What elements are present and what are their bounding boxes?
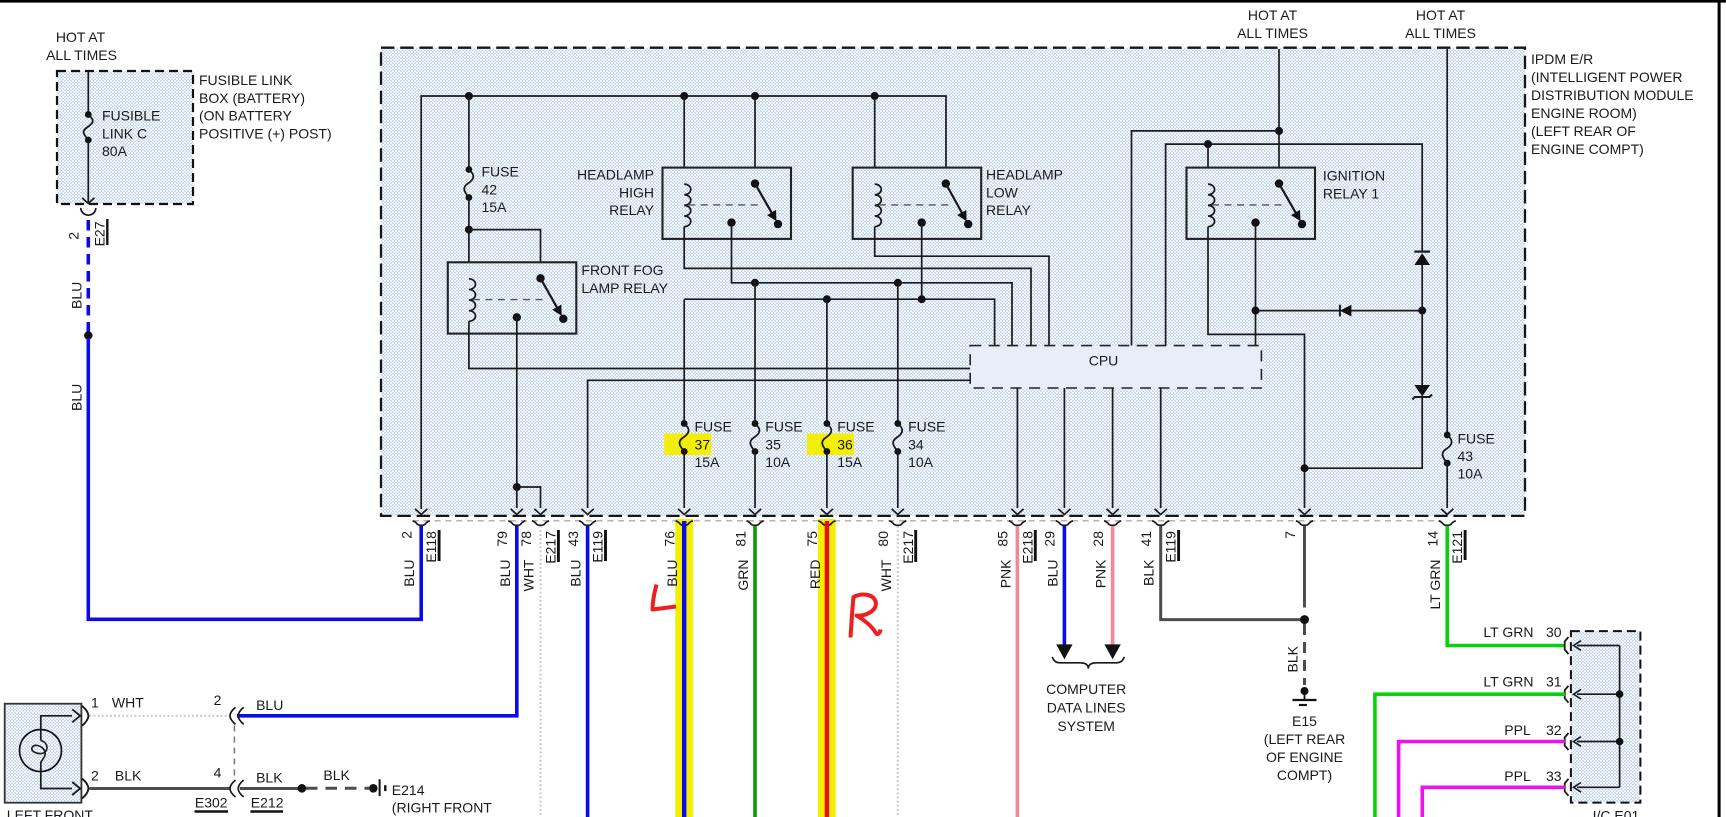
svg-text:75: 75 <box>804 531 820 547</box>
wire feed to fuse 35 <box>754 283 756 424</box>
ground E15 <box>1301 687 1309 695</box>
wire BLU from junction down and right to IPDM pin 2 E118 <box>88 338 421 619</box>
wire GRN pin 81 down <box>753 526 757 817</box>
wire CPU to pin 41 <box>1160 388 1162 508</box>
node diode line right junction <box>1418 307 1426 315</box>
svg-text:41: 41 <box>1138 531 1154 547</box>
annotation L (left headlamp wire) <box>653 585 677 610</box>
wire PPL pin 33 down <box>1422 787 1565 817</box>
svg-text:E217: E217 <box>543 531 559 564</box>
svg-text:FUSE: FUSE <box>1458 431 1495 447</box>
node rail pin 31 <box>1616 690 1624 698</box>
wire WHT pin 80 down <box>897 526 899 817</box>
wire BLU pin 76 down (left headlamp) <box>682 521 686 817</box>
connector IPDM pin 78 E217 <box>534 509 546 515</box>
fusible link box (battery) <box>57 71 193 204</box>
svg-text:FUSE: FUSE <box>765 419 802 435</box>
connector strip dashed line below IPDM <box>413 520 1441 522</box>
connector I/C E01 pin 30 <box>1577 645 1620 647</box>
fuse 43 10A <box>1444 432 1451 439</box>
wire pin 43 line to CPU <box>588 380 971 508</box>
svg-text:HOT AT: HOT AT <box>56 29 106 45</box>
wire connector link dashed <box>233 726 235 781</box>
svg-text:ALL TIMES: ALL TIMES <box>46 47 117 63</box>
svg-text:E121: E121 <box>1449 531 1465 564</box>
wire junction to pin 78 <box>517 487 541 508</box>
svg-text:(ON BATTERY: (ON BATTERY <box>199 108 292 124</box>
svg-text:RELAY 1: RELAY 1 <box>1323 186 1380 202</box>
wire feed to fuse 36 <box>826 299 828 423</box>
node coil tap <box>1204 140 1212 148</box>
wire high relay common feed to fuses 35 34 and CPU <box>732 223 1013 346</box>
svg-text:BLU: BLU <box>256 697 283 713</box>
node fuse 42 output junction <box>465 226 473 234</box>
wire fuse 42 to junction <box>468 198 470 230</box>
wire PPL pin 32 down <box>1399 742 1565 817</box>
svg-text:BLU: BLU <box>68 282 84 309</box>
svg-text:E119: E119 <box>1163 531 1179 563</box>
connector E214 symbol <box>379 779 381 796</box>
svg-text:78: 78 <box>518 531 534 547</box>
svg-text:LT GRN: LT GRN <box>1427 560 1443 610</box>
connector IPDM pin 2 E118 <box>415 509 427 515</box>
diode D2 (pointing left) <box>1340 305 1352 317</box>
svg-text:ENGINE COMPT): ENGINE COMPT) <box>1531 141 1644 157</box>
svg-text:HOT AT: HOT AT <box>1248 7 1298 23</box>
wire highlight yellow pin 75 <box>818 519 836 817</box>
connector E302 E212 pin 2 <box>230 707 236 724</box>
svg-text:10A: 10A <box>765 454 791 470</box>
page right border <box>1718 0 1721 817</box>
node ground junction <box>1300 615 1309 624</box>
svg-text:HIGH: HIGH <box>619 185 654 201</box>
wire fusible link to connector E27 <box>87 140 89 202</box>
svg-text:2: 2 <box>65 232 81 240</box>
svg-text:ALL TIMES: ALL TIMES <box>1237 25 1308 41</box>
connector I/C E01 pin 32 <box>1577 741 1620 743</box>
fuse 37 15A <box>681 420 688 427</box>
fusible link C 80A <box>85 111 92 118</box>
svg-text:POSITIVE (+) POST): POSITIVE (+) POST) <box>199 126 332 142</box>
wire tap to ignition relay coil <box>1207 144 1209 184</box>
svg-text:COMPT): COMPT) <box>1277 767 1332 783</box>
wire fog relay common down to junction <box>516 317 518 487</box>
connector IPDM pin 29 <box>1058 509 1070 515</box>
svg-text:BLU: BLU <box>497 560 513 587</box>
svg-text:DISTRIBUTION MODULE: DISTRIBUTION MODULE <box>1531 87 1694 103</box>
wire fuse 37 to pin <box>683 452 685 509</box>
wire bus to high relay coil <box>683 96 685 184</box>
svg-text:(LEFT REAR OF: (LEFT REAR OF <box>1531 123 1636 139</box>
left front fog lamp box <box>5 704 82 803</box>
wire zener to pin 7 ground line <box>1305 397 1423 468</box>
svg-text:2: 2 <box>91 768 99 784</box>
svg-text:28: 28 <box>1090 531 1106 547</box>
wire main bus from pin 2 feed across relays <box>421 96 946 509</box>
wire LT GRN pin 14 to connector I/C E01 pin 30 <box>1447 526 1565 646</box>
svg-text:FUSE: FUSE <box>837 419 874 435</box>
svg-text:80A: 80A <box>102 143 128 159</box>
highlight fuse 36 <box>807 434 854 456</box>
wire diode D1 to junction <box>1421 265 1423 311</box>
svg-text:LEFT FRONT: LEFT FRONT <box>7 807 94 817</box>
svg-text:RELAY: RELAY <box>986 202 1032 218</box>
svg-text:29: 29 <box>1042 531 1058 547</box>
svg-text:1: 1 <box>91 695 99 711</box>
wire highlight yellow pin 76 <box>675 519 693 817</box>
wire LT GRN pin 31 down <box>1375 694 1565 817</box>
svg-text:FUSE: FUSE <box>695 419 732 435</box>
svg-text:SYSTEM: SYSTEM <box>1057 718 1115 734</box>
wire low relay coil to CPU <box>875 227 1049 346</box>
relay headlamp low relay <box>853 168 982 239</box>
svg-text:E214: E214 <box>392 782 425 798</box>
connector IPDM pin 79 <box>511 509 523 515</box>
wire BLK dashed to E214 <box>306 787 369 790</box>
svg-text:OF ENGINE: OF ENGINE <box>1266 749 1343 765</box>
connector IPDM pin 43 E119 <box>582 509 594 515</box>
svg-text:HOT AT: HOT AT <box>1416 7 1466 23</box>
svg-text:2: 2 <box>399 531 415 539</box>
svg-text:WHT: WHT <box>112 695 144 711</box>
wire junction to pin 79 <box>516 487 518 508</box>
wire ignition feed branch to CPU <box>1132 131 1280 346</box>
svg-text:32: 32 <box>1546 722 1562 738</box>
svg-text:BOX (BATTERY): BOX (BATTERY) <box>199 90 305 106</box>
svg-text:E217: E217 <box>900 531 916 564</box>
wire PNK pin 85 down <box>1016 526 1020 817</box>
svg-text:HEADLAMP: HEADLAMP <box>986 167 1063 183</box>
svg-text:(LEFT REAR: (LEFT REAR <box>1264 731 1345 747</box>
svg-text:PPL: PPL <box>1504 768 1531 784</box>
svg-text:79: 79 <box>494 531 510 547</box>
node high common to fuse 34 <box>894 279 902 287</box>
connector I/C E01 pin 33 <box>1577 786 1620 788</box>
brace computer data lines <box>1052 657 1124 669</box>
svg-text:LOW: LOW <box>986 185 1019 201</box>
relay headlamp high relay <box>663 168 792 239</box>
svg-text:14: 14 <box>1425 531 1441 547</box>
wire BLK dashed to ground E15 <box>1303 624 1306 685</box>
fuse 42 15A <box>466 166 473 173</box>
svg-text:FUSIBLE: FUSIBLE <box>102 108 160 124</box>
wire fuse 36 to pin <box>826 452 828 509</box>
svg-text:15A: 15A <box>695 454 721 470</box>
wire WHT lamp to connector E302 <box>90 715 230 717</box>
svg-text:E302: E302 <box>195 795 228 811</box>
wire ignition relay common to CPU <box>1255 223 1257 346</box>
connector IPDM pin 14 E121 <box>1441 509 1453 515</box>
svg-text:10A: 10A <box>1458 466 1484 482</box>
svg-text:BLU: BLU <box>68 384 84 411</box>
svg-text:BLU: BLU <box>568 560 584 587</box>
svg-text:BLU: BLU <box>664 560 680 587</box>
svg-text:81: 81 <box>732 531 748 547</box>
wire fuse 34 to pin <box>897 452 899 509</box>
wire HOT AT ALL TIMES feed to ignition relay switch <box>1278 49 1280 184</box>
svg-text:IPDM E/R: IPDM E/R <box>1531 51 1593 67</box>
wire bus to fuse 42 <box>468 96 470 170</box>
svg-text:WHT: WHT <box>521 559 537 591</box>
svg-text:BLK: BLK <box>256 770 283 786</box>
I/C E01 connector box <box>1571 631 1641 803</box>
svg-text:BLK: BLK <box>115 768 142 784</box>
fuse 36 15A <box>824 420 831 427</box>
svg-text:FUSE: FUSE <box>908 419 945 435</box>
svg-text:DATA LINES: DATA LINES <box>1047 700 1126 716</box>
wire RED pin 75 down (right headlamp) <box>825 521 829 817</box>
svg-text:10A: 10A <box>908 454 934 470</box>
wire BLU pin 43 down <box>586 526 590 817</box>
connector lamp pin 2 <box>82 779 89 799</box>
svg-text:E218: E218 <box>1019 531 1035 564</box>
wire lamp internal pin 1 <box>41 716 72 741</box>
connector IPDM pin 81 <box>749 509 761 515</box>
node rail pin 32 <box>1616 738 1624 746</box>
svg-text:RELAY: RELAY <box>609 202 655 218</box>
svg-text:HEADLAMP: HEADLAMP <box>577 167 654 183</box>
svg-text:43: 43 <box>565 531 581 547</box>
svg-text:BLU: BLU <box>401 560 417 587</box>
svg-text:LT GRN: LT GRN <box>1483 624 1533 640</box>
svg-text:37: 37 <box>695 437 711 453</box>
svg-text:COMPUTER: COMPUTER <box>1046 681 1126 697</box>
wire BLK from E212 to junction <box>240 787 298 790</box>
svg-text:31: 31 <box>1546 674 1562 690</box>
node BLK at E214 <box>369 784 378 793</box>
svg-text:33: 33 <box>1546 768 1562 784</box>
connector I/C E01 pin 31 <box>1577 693 1620 695</box>
svg-text:34: 34 <box>908 437 924 453</box>
node feed to fuse 36 <box>823 295 831 303</box>
svg-text:2: 2 <box>214 692 222 708</box>
connector IPDM pin 7 <box>1298 509 1310 515</box>
wire fuse 43 to pin 14 <box>1446 463 1448 508</box>
node bus to headlamp high relay coil <box>680 92 688 100</box>
relay front fog lamp relay <box>448 262 577 333</box>
connector IPDM pin 75 <box>821 509 833 515</box>
wire BLU dashed from E27 <box>87 220 91 332</box>
svg-text:LINK C: LINK C <box>102 126 147 142</box>
svg-text:LT GRN: LT GRN <box>1483 674 1533 690</box>
svg-text:15A: 15A <box>837 454 863 470</box>
wire high relay coil to CPU <box>684 227 1031 346</box>
node low common junction <box>918 295 926 303</box>
annotation R (right headlamp wire) <box>851 595 881 638</box>
wire junction to front fog relay switch <box>469 230 541 279</box>
wire lamp internal pin 2 <box>41 762 72 789</box>
relay ignition relay 1 <box>1187 168 1316 239</box>
svg-text:PNK: PNK <box>1093 559 1109 588</box>
svg-text:E15: E15 <box>1292 713 1317 729</box>
svg-text:RED: RED <box>807 560 823 590</box>
svg-text:FUSIBLE LINK: FUSIBLE LINK <box>199 72 293 88</box>
node bus to fuse 42 <box>465 92 473 100</box>
svg-text:43: 43 <box>1458 448 1474 464</box>
connector IPDM pin 80 E217 <box>892 509 904 515</box>
zener diode D3 (pointing down) <box>1421 311 1423 385</box>
arrow into connector E27 <box>82 198 94 204</box>
svg-text:GRN: GRN <box>735 560 751 591</box>
wire diode horizontal line <box>1256 310 1423 312</box>
lamp bulb <box>20 730 62 772</box>
wire bus to high relay switch <box>754 96 756 184</box>
svg-text:BLK: BLK <box>1141 559 1157 586</box>
svg-text:85: 85 <box>995 531 1011 547</box>
connector IPDM pin 41 E119 <box>1155 509 1167 515</box>
wire ignition relay coil to pin 7 ground line <box>1208 227 1305 508</box>
svg-text:PNK: PNK <box>997 559 1013 588</box>
connector IPDM pin 85 E218 <box>1011 509 1023 515</box>
svg-text:ENGINE ROOM): ENGINE ROOM) <box>1531 105 1637 121</box>
node junction on BLU wire <box>84 331 92 339</box>
wire PNK pin 28 to computer data lines <box>1111 526 1115 645</box>
svg-text:76: 76 <box>662 531 678 547</box>
wire fuse 35 to pin <box>754 452 756 509</box>
connector E27 pin 2 <box>81 208 96 215</box>
svg-text:E27: E27 <box>91 221 107 246</box>
wire BLU pin 29 to computer data lines <box>1063 526 1067 645</box>
node fog relay output junction <box>513 483 521 491</box>
svg-text:FUSE: FUSE <box>482 164 519 180</box>
wire BLK pin 7 to ground junction <box>1303 526 1306 608</box>
wire HOT AT ALL TIMES feed to fuse 43 <box>1446 49 1448 435</box>
diode D1 (pointing up) <box>1414 253 1430 265</box>
svg-text:I/C E01: I/C E01 <box>1593 808 1640 817</box>
page top border <box>0 0 1726 3</box>
svg-text:35: 35 <box>765 437 781 453</box>
svg-text:E212: E212 <box>251 795 284 811</box>
svg-text:WHT: WHT <box>878 559 894 591</box>
svg-text:E119: E119 <box>590 531 606 563</box>
wire fog relay coil to CPU <box>469 321 970 368</box>
svg-text:80: 80 <box>875 531 891 547</box>
svg-text:BLU: BLU <box>1044 560 1060 587</box>
wire WHT pin 78 down <box>539 526 541 817</box>
wire diode line to ignition relay coil and CPU <box>1166 144 1423 346</box>
node common-diode junction <box>1252 307 1260 315</box>
node bus to headlamp low relay coil <box>871 92 879 100</box>
node bus to headlamp high relay switch <box>751 92 759 100</box>
svg-text:15A: 15A <box>482 199 508 215</box>
svg-text:LAMP RELAY: LAMP RELAY <box>581 280 668 296</box>
svg-text:(RIGHT FRONT: (RIGHT FRONT <box>392 800 493 816</box>
svg-text:7: 7 <box>1282 531 1298 539</box>
wire bus to low relay coil <box>874 96 876 184</box>
highlight fuse 37 <box>664 434 711 456</box>
svg-text:FRONT FOG: FRONT FOG <box>581 262 663 278</box>
connector IPDM pin 28 <box>1107 509 1119 515</box>
svg-text:30: 30 <box>1546 624 1562 640</box>
connector E302 E212 pin 4 <box>230 780 236 797</box>
svg-text:ALL TIMES: ALL TIMES <box>1405 25 1476 41</box>
svg-text:BLK: BLK <box>323 767 350 783</box>
wire CPU to pin 29 <box>1063 388 1065 508</box>
wire BLK pin 41 to ground junction <box>1161 526 1300 620</box>
node ignition return junction <box>1301 464 1309 472</box>
connector lamp pin 1 <box>82 706 89 726</box>
CPU box <box>970 346 1261 388</box>
wire CPU to pin 28 <box>1112 388 1114 508</box>
wire internal rail I/C E01 <box>1619 646 1621 788</box>
wire feed to fuse 37 <box>683 299 685 423</box>
svg-text:36: 36 <box>837 437 853 453</box>
wire low relay common feed to fuses 37 36 and CPU <box>921 223 923 300</box>
wire BLU pin 79 to front fog lamp connector <box>237 526 517 716</box>
connector IPDM pin 76 <box>678 509 690 515</box>
svg-text:PPL: PPL <box>1504 722 1531 738</box>
svg-text:42: 42 <box>482 182 498 198</box>
IPDM E/R module box <box>381 48 1525 516</box>
wire feed to fuse 34 <box>897 283 899 424</box>
svg-text:CPU: CPU <box>1089 353 1119 369</box>
svg-text:IGNITION: IGNITION <box>1323 168 1385 184</box>
svg-text:BLK: BLK <box>1285 645 1301 672</box>
node high common to fuse 35 <box>751 279 759 287</box>
svg-text:(INTELLIGENT POWER: (INTELLIGENT POWER <box>1531 69 1682 85</box>
wire junction to front fog relay coil <box>468 230 470 279</box>
wire CPU to pin 85 <box>1016 388 1018 508</box>
lamp filament <box>32 741 47 763</box>
fuse 35 10A <box>752 420 759 427</box>
wire BLK lamp to connector E302 <box>90 787 230 790</box>
node ignition feed branch <box>1275 127 1283 135</box>
svg-text:4: 4 <box>214 765 222 781</box>
fuse 34 10A <box>894 420 901 427</box>
wire battery feed into fusible link <box>87 71 89 115</box>
svg-text:E118: E118 <box>423 531 439 563</box>
node BLK junction <box>298 784 307 793</box>
